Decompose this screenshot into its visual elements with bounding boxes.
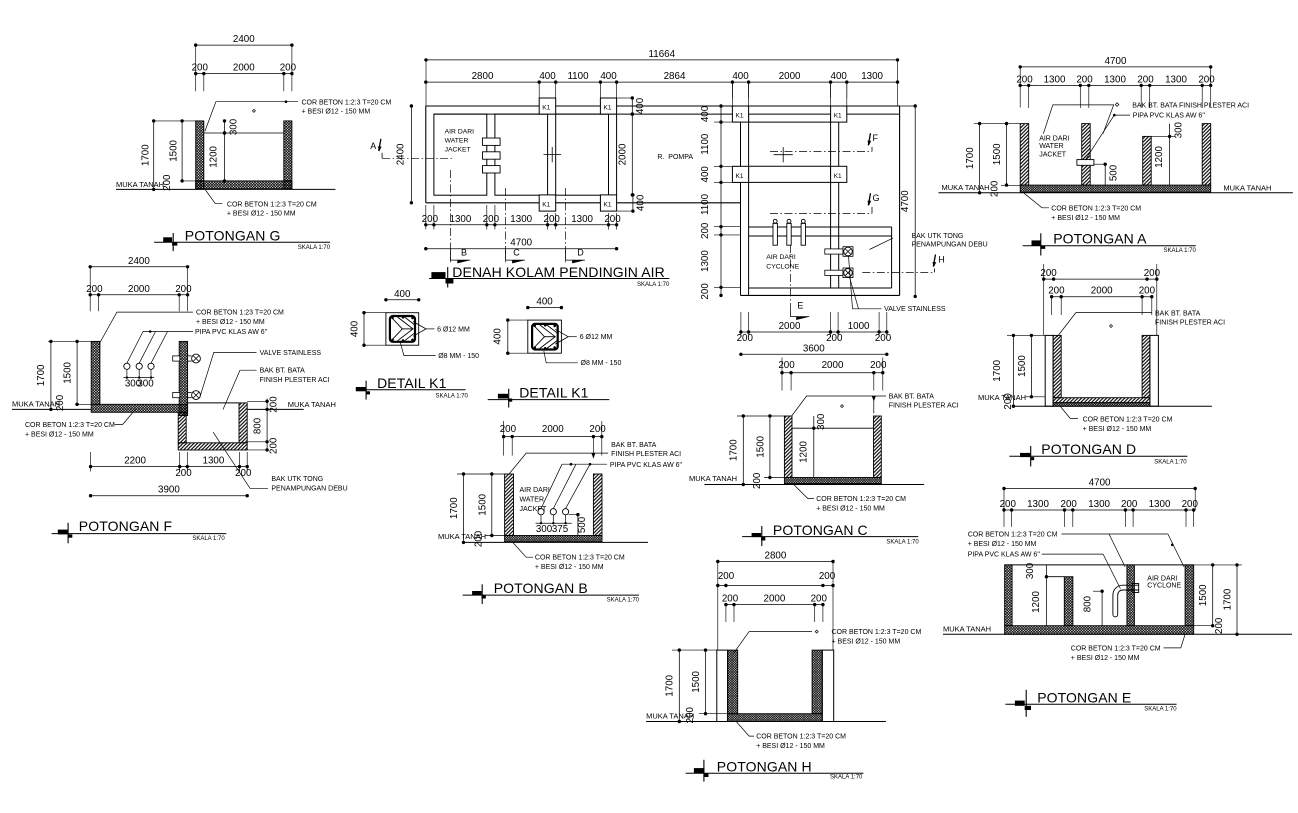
svg-text:200: 200: [280, 63, 297, 74]
svg-text:POTONGAN D: POTONGAN D: [1041, 441, 1136, 457]
svg-text:K1: K1: [834, 113, 842, 120]
svg-text:200: 200: [1121, 499, 1138, 510]
svg-text:FINISH PLESTER ACI: FINISH PLESTER ACI: [1155, 320, 1225, 327]
dim 2800 H: [718, 561, 833, 563]
svg-text:200: 200: [1214, 617, 1225, 634]
vdim 300 E: [1045, 565, 1047, 577]
dim stubs C: [737, 415, 784, 417]
svg-text:1500: 1500: [63, 361, 74, 383]
vdim 4700 right block: [861, 105, 916, 107]
right block inner floor line: [749, 287, 892, 289]
vdim 1200 A: [1169, 136, 1171, 185]
pipes F: [124, 363, 130, 369]
dim 4700 E: [1004, 488, 1195, 490]
svg-text:POTONGAN G: POTONGAN G: [185, 228, 281, 244]
stirrup K1a: [390, 316, 415, 342]
svg-text:+ BESI Ø12 - 150 MM: + BESI Ø12 - 150 MM: [25, 432, 94, 439]
svg-text:200: 200: [500, 424, 517, 435]
svg-text:200: 200: [422, 214, 439, 225]
K1 extension lines above right block row1: [731, 82, 733, 106]
svg-text:COR BETON 1:2:3 T=20 CM: COR BETON 1:2:3 T=20 CM: [25, 422, 115, 429]
svg-text:1300: 1300: [861, 71, 883, 82]
leader COR BETON bottom E: [1164, 634, 1186, 648]
svg-text:200: 200: [875, 333, 892, 344]
svg-text:AIR DARI: AIR DARI: [445, 129, 475, 136]
svg-text:COR BETON 1:23 T=20 CM: COR BETON 1:23 T=20 CM: [196, 310, 284, 317]
detail view DETAIL K1 left: [350, 289, 480, 400]
vdim 300 G: [224, 121, 226, 133]
svg-text:SKALA 1:70: SKALA 1:70: [607, 597, 640, 603]
svg-text:2400: 2400: [396, 143, 407, 165]
svg-text:DENAH KOLAM PENDINGIN AIR: DENAH KOLAM PENDINGIN AIR: [452, 264, 665, 280]
svg-text:+ BESI Ø12 - 150 MM: + BESI Ø12 - 150 MM: [1051, 215, 1120, 222]
svg-text:1500: 1500: [756, 435, 767, 457]
svg-text:400: 400: [831, 71, 848, 82]
leader VALVE STAINLESS F: [201, 352, 257, 395]
svg-text:1300: 1300: [700, 250, 711, 272]
right wall B hatched: [593, 474, 602, 536]
dim stubs F left: [48, 340, 100, 342]
vdim 1500 E: [1212, 565, 1214, 626]
plan outer top wall line: [426, 105, 900, 107]
right wall G hatched: [284, 121, 292, 189]
svg-text:1200: 1200: [209, 145, 220, 167]
svg-text:WATER: WATER: [520, 497, 545, 504]
title DETAIL K1 left: [356, 387, 366, 391]
leader VALVE STAINLESS: [849, 256, 882, 309]
plan bottom dim row 200x1300: [426, 224, 617, 226]
bak left wall extension F hatched: [178, 412, 186, 443]
left outer wall E hatched: [1005, 565, 1013, 626]
column K1 bottom row 1: [539, 195, 556, 211]
svg-text:1500: 1500: [992, 143, 1003, 165]
vdim 400 plan right bottom: [632, 195, 634, 211]
svg-text:1300: 1300: [571, 214, 593, 225]
mid wall E hatched: [1127, 565, 1135, 626]
svg-text:400: 400: [600, 71, 617, 82]
svg-text:1300: 1300: [1104, 74, 1126, 85]
dim extensions F bottom: [90, 452, 92, 472]
svg-text:MUKA TANAH: MUKA TANAH: [942, 183, 990, 192]
column K1 top row 1: [539, 98, 556, 114]
right dims F bak: [247, 400, 267, 402]
rebar diagonals K1b: [534, 326, 544, 348]
svg-text:E: E: [797, 301, 803, 311]
svg-text:200: 200: [473, 530, 484, 547]
plan bottom dim extensions: [425, 205, 427, 230]
svg-text:200: 200: [722, 593, 739, 604]
dim row E 200 1300: [1004, 509, 1194, 511]
svg-text:2000: 2000: [822, 360, 844, 371]
dim stubs H: [672, 649, 717, 651]
svg-text:200: 200: [589, 424, 606, 435]
svg-text:DETAIL K1: DETAIL K1: [519, 384, 588, 400]
svg-text:400: 400: [700, 166, 711, 183]
svg-text:+ BESI Ø12 - 150 MM: + BESI Ø12 - 150 MM: [1071, 655, 1140, 662]
svg-text:1300: 1300: [1027, 499, 1049, 510]
svg-text:A: A: [370, 141, 376, 151]
right block right inner wall line bottom: [891, 227, 893, 288]
svg-text:F: F: [873, 133, 879, 143]
leader PIPA PVC B: [541, 464, 562, 508]
svg-text:PENAMPUNGAN DEBU: PENAMPUNGAN DEBU: [912, 242, 988, 249]
dim extensions A: [1028, 85, 1030, 108]
dim 300 375 B: [536, 522, 572, 524]
svg-text:200: 200: [1003, 393, 1014, 410]
svg-text:2000: 2000: [128, 284, 150, 295]
dim extensions B: [503, 437, 505, 456]
svg-text:MUKA TANAH: MUKA TANAH: [12, 400, 60, 409]
svg-text:300: 300: [137, 379, 154, 390]
leader D8 K1a: [400, 343, 435, 356]
svg-text:2400: 2400: [233, 34, 255, 45]
plan inner top wall line: [434, 113, 900, 115]
valve stainless upper: [825, 249, 843, 254]
vdim 500 A: [1104, 164, 1106, 185]
svg-text:800: 800: [1083, 595, 1094, 612]
svg-text:1500: 1500: [477, 493, 488, 515]
leader BAK BT BATA B: [509, 453, 608, 474]
section view POTONGAN E: [943, 478, 1292, 717]
svg-text:6 Ø12 MM: 6 Ø12 MM: [437, 326, 470, 333]
section view POTONGAN A: [939, 56, 1293, 256]
right block right outer wall line: [899, 106, 901, 295]
dim row F bottom 2200 1300: [91, 466, 248, 468]
svg-text:200: 200: [1139, 286, 1156, 297]
svg-text:1000: 1000: [848, 321, 870, 332]
right wall F hatched: [179, 341, 187, 415]
title POTONGAN A: [1032, 240, 1041, 245]
svg-text:1700: 1700: [729, 439, 740, 461]
svg-text:B: B: [461, 248, 467, 258]
svg-text:400: 400: [536, 297, 553, 308]
section line H dash-dot: [862, 271, 934, 273]
leader 6 D12 K1b: [555, 329, 568, 344]
svg-text:400: 400: [635, 97, 646, 114]
section view POTONGAN H: [646, 551, 921, 782]
plan view DENAH KOLAM PENDINGIN AIR: [370, 49, 899, 288]
svg-text:2800: 2800: [472, 71, 494, 82]
svg-text:200: 200: [685, 706, 696, 723]
title POTONGAN H: [694, 768, 704, 773]
svg-text:200: 200: [235, 468, 252, 479]
svg-text:2000: 2000: [618, 143, 629, 165]
svg-text:4700: 4700: [1089, 478, 1111, 489]
wall 1 A hatched: [1020, 124, 1028, 186]
dim extensions E: [1003, 510, 1005, 527]
svg-text:200: 200: [700, 222, 711, 239]
right block left wall lines: [740, 114, 742, 295]
svg-text:CYCLONE: CYCLONE: [766, 263, 799, 270]
rebar diagonals K1a: [392, 318, 402, 340]
vdim 1700 C: [742, 416, 744, 485]
svg-text:POTONGAN H: POTONGAN H: [717, 758, 812, 774]
valve F upper: [173, 356, 180, 361]
svg-text:AIR DARI: AIR DARI: [1147, 575, 1177, 582]
svg-text:400: 400: [700, 105, 711, 122]
center mark compartment F: [774, 154, 793, 156]
section view POTONGAN C: [689, 358, 959, 547]
svg-text:+ BESI Ø12 - 150 MM: + BESI Ø12 - 150 MM: [832, 638, 901, 645]
vdim 2400 plan left: [410, 106, 412, 203]
ledge line E 300: [1046, 576, 1064, 578]
right inner wall D hatched: [1142, 335, 1150, 397]
svg-text:400: 400: [539, 71, 556, 82]
floor slab D upper hatched: [1053, 398, 1150, 403]
vdim 1200 G: [224, 133, 226, 181]
dim 2400 F: [90, 266, 187, 268]
vdim 1500 B: [491, 474, 493, 536]
svg-text:SKALA 1:70: SKALA 1:70: [1144, 707, 1177, 713]
svg-text:POTONGAN A: POTONGAN A: [1053, 231, 1147, 247]
svg-text:200: 200: [268, 437, 279, 454]
column outline K1b: [528, 320, 562, 353]
svg-text:K1: K1: [542, 202, 550, 209]
svg-text:POTONGAN E: POTONGAN E: [1037, 689, 1131, 705]
svg-text:1300: 1300: [1149, 499, 1171, 510]
svg-text:200: 200: [989, 180, 1000, 197]
vdim 1700 B: [463, 474, 465, 542]
section view POTONGAN F: [12, 256, 348, 544]
pipe sleeve A: [1077, 160, 1094, 166]
svg-text:4700: 4700: [1105, 56, 1127, 67]
svg-text:Ø8 MM - 150: Ø8 MM - 150: [581, 360, 622, 367]
ground line C: [705, 484, 925, 486]
diamond mark C: [841, 405, 844, 408]
svg-text:+ BESI Ø12 - 150 MM: + BESI Ø12 - 150 MM: [227, 211, 296, 218]
pool compartment 1 inner rect: [434, 114, 487, 195]
svg-text:500: 500: [577, 516, 588, 533]
water line C: [792, 427, 874, 429]
svg-text:375: 375: [552, 524, 569, 535]
title DETAIL K1 right: [498, 394, 508, 399]
ground line B: [464, 541, 649, 543]
svg-text:CYCLONE: CYCLONE: [1147, 583, 1181, 590]
floor slab H hatched: [728, 714, 823, 722]
title DENAH KOLAM PENDINGIN AIR: [431, 272, 445, 278]
svg-text:500: 500: [1109, 164, 1120, 181]
dim row plan top 2800-1300: [426, 81, 898, 83]
wall 4 A hatched: [1202, 124, 1211, 186]
svg-text:FINISH PLESTER ACI: FINISH PLESTER ACI: [260, 377, 330, 384]
dim stubs D: [1007, 334, 1045, 336]
svg-text:1300: 1300: [510, 214, 532, 225]
bak right wall F hatched: [239, 403, 247, 443]
ground line E: [943, 633, 1292, 635]
svg-text:2800: 2800: [765, 551, 787, 562]
leader COR BETON bottom H: [736, 722, 754, 737]
column K1 bottom row 2: [600, 195, 616, 211]
svg-text:400: 400: [732, 71, 749, 82]
left inner wall D hatched: [1053, 335, 1061, 397]
svg-text:1100: 1100: [700, 193, 711, 215]
title POTONGAN E: [1015, 701, 1025, 706]
dim row 200 2000 200 G: [196, 73, 292, 75]
svg-text:+ BESI Ø12 - 150 MM: + BESI Ø12 - 150 MM: [968, 541, 1037, 548]
svg-text:COR BETON 1:2:3 T=20 CM: COR BETON 1:2:3 T=20 CM: [968, 532, 1058, 539]
rebar dots K1a: [391, 317, 394, 320]
svg-text:1700: 1700: [965, 147, 976, 169]
svg-text:4700: 4700: [900, 190, 911, 212]
leader COR BETON B: [513, 542, 533, 557]
bak floor slab F hatched: [178, 443, 247, 450]
floor slab C hatched: [784, 478, 881, 484]
svg-text:2000: 2000: [779, 321, 801, 332]
dim extension lines G top: [195, 45, 197, 91]
pipes B: [538, 509, 544, 515]
right outer wall E hatched: [1185, 565, 1194, 626]
svg-text:200: 200: [778, 360, 795, 371]
dim row D outer 200 200: [1044, 278, 1157, 280]
title POTONGAN D: [1020, 453, 1030, 457]
vdim 400 left K1b: [508, 319, 528, 321]
svg-text:6 Ø12 MM: 6 Ø12 MM: [580, 334, 613, 341]
svg-text:SKALA 1:70: SKALA 1:70: [192, 536, 225, 542]
section marker B plan: [450, 170, 452, 262]
svg-text:1100: 1100: [567, 71, 589, 82]
svg-text:1700: 1700: [449, 497, 460, 519]
svg-text:SKALA 1:70: SKALA 1:70: [1154, 459, 1187, 465]
dim 400 top K1a: [386, 299, 419, 301]
svg-text:AIR DARI: AIR DARI: [1039, 135, 1069, 142]
svg-text:AIR DARI: AIR DARI: [766, 254, 796, 261]
leader BAK BT BATA D: [1057, 313, 1152, 338]
dim row B 200 2000 200: [504, 436, 602, 438]
svg-text:COR BETON 1:2:3 T=20 CM: COR BETON 1:2:3 T=20 CM: [535, 555, 625, 562]
ground line F right: [247, 408, 304, 410]
svg-text:200: 200: [1000, 499, 1017, 510]
svg-text:PIPA PVC KLAS AW 6": PIPA PVC KLAS AW 6": [195, 329, 268, 336]
svg-text:R. POMPA: R. POMPA: [657, 154, 693, 161]
stirrup K1b: [532, 324, 558, 350]
svg-text:+ BESI Ø12 - 150 MM: + BESI Ø12 - 150 MM: [535, 564, 604, 571]
svg-text:+ BESI Ø12 - 150 MM: + BESI Ø12 - 150 MM: [756, 743, 825, 750]
right block bottom dim row 2000 1000: [741, 331, 887, 333]
dim stubs B: [457, 473, 505, 475]
section marker A plan: [379, 139, 381, 151]
svg-text:11664: 11664: [649, 49, 676, 60]
svg-text:H: H: [938, 254, 945, 264]
dim row A 200 1300: [1020, 84, 1210, 86]
column K1 right block row2 col3: [732, 166, 748, 182]
leader BAK BT BATA A: [1043, 105, 1114, 134]
svg-text:400: 400: [394, 289, 411, 300]
dim 11664 plan top: [426, 59, 898, 61]
svg-text:Ø8 MM - 150: Ø8 MM - 150: [438, 353, 479, 360]
plan bottom wall line left block and corridor: [426, 202, 741, 204]
title POTONGAN C: [752, 533, 762, 537]
svg-text:JACKET: JACKET: [1039, 152, 1067, 159]
svg-text:1300: 1300: [1044, 74, 1066, 85]
svg-text:200: 200: [1016, 74, 1033, 85]
svg-text:BAK BT. BATA: BAK BT. BATA: [1155, 310, 1201, 317]
dim 300 300 F: [123, 377, 154, 379]
valve F lower: [173, 393, 180, 398]
svg-text:COR BETON 1:2:3 T=20 CM: COR BETON 1:2:3 T=20 CM: [1083, 417, 1173, 424]
wall 3 short A hatched: [1143, 136, 1152, 185]
section marker D plan: [564, 188, 566, 262]
vdim 400 left K1a: [364, 312, 386, 314]
title POTONGAN G: [163, 237, 172, 242]
svg-text:K1: K1: [834, 173, 842, 180]
leader COR BETON C: [794, 485, 814, 499]
svg-text:PIPA PVC KLAS AW 6": PIPA PVC KLAS AW 6": [968, 552, 1041, 559]
svg-text:MUKA TANAH: MUKA TANAH: [689, 474, 737, 483]
svg-text:JACKET: JACKET: [445, 147, 471, 154]
pvc pipe J shape E: [1113, 590, 1139, 617]
ground line A: [939, 192, 1293, 194]
svg-text:+ BESI Ø12 - 150 MM: + BESI Ø12 - 150 MM: [1083, 426, 1152, 433]
top edge line E: [1005, 564, 1194, 566]
leader COR BETON top G: [205, 102, 298, 132]
pool compartment 2 inner rect: [495, 114, 548, 195]
title POTONGAN B: [472, 591, 481, 595]
right pool block plan: [700, 82, 988, 356]
left wall F hatched: [91, 341, 100, 404]
svg-text:SKALA 1:70: SKALA 1:70: [298, 245, 331, 251]
svg-text:G: G: [873, 193, 880, 203]
vdim 1500 D: [1030, 335, 1032, 396]
pipes through cyclone wall: [773, 219, 777, 223]
dim 4700 A: [1020, 66, 1210, 68]
right dims E: [1194, 564, 1242, 566]
vdim 1700 H: [678, 650, 680, 721]
vdim 1700 E: [1236, 565, 1238, 634]
svg-text:200: 200: [1198, 74, 1215, 85]
svg-text:200: 200: [826, 333, 843, 344]
vdim 1700 G: [153, 121, 155, 189]
svg-text:200: 200: [811, 593, 828, 604]
dim row C 200 2000 200: [782, 372, 883, 374]
leader COR BETON top H: [734, 632, 812, 654]
svg-text:200: 200: [604, 214, 621, 225]
svg-text:1700: 1700: [665, 674, 676, 696]
ground line D: [1013, 405, 1212, 407]
dim stubs A left: [974, 123, 1020, 125]
section view POTONGAN G: [116, 34, 391, 251]
vdim 1500 C: [769, 416, 771, 478]
svg-text:200: 200: [1182, 499, 1199, 510]
svg-text:2200: 2200: [124, 455, 146, 466]
right block left dim line: [720, 106, 722, 295]
floor slab B hatched: [505, 536, 602, 542]
dim extensions C: [781, 373, 783, 391]
svg-text:200: 200: [870, 360, 887, 371]
svg-text:1500: 1500: [1017, 355, 1028, 377]
column K1 top row 2: [600, 98, 616, 114]
svg-text:BAK UTK TONG: BAK UTK TONG: [912, 233, 964, 240]
section line G dash-dot: [770, 213, 872, 215]
svg-text:+ BESI Ø12 - 150 MM: + BESI Ø12 - 150 MM: [196, 319, 265, 326]
right wall C hatched: [874, 416, 882, 478]
svg-text:200: 200: [718, 571, 735, 582]
svg-text:MUKA TANAH: MUKA TANAH: [116, 180, 164, 189]
svg-text:1300: 1300: [1165, 74, 1187, 85]
dim extensions H: [725, 605, 727, 622]
pipe flange E: [1132, 584, 1138, 593]
svg-text:BAK UTK TONG: BAK UTK TONG: [271, 476, 323, 483]
wall W4 lines below K1: [608, 114, 610, 195]
column K1 right block row1 col3: [732, 106, 748, 122]
ground line F left: [12, 408, 91, 410]
dim row D inner 200 2000 200: [1052, 296, 1152, 298]
svg-text:FINISH PLESTER ACI: FINISH PLESTER ACI: [889, 403, 959, 410]
vdim 1700 A: [979, 124, 981, 193]
svg-text:2000: 2000: [764, 593, 786, 604]
vdim 1500 H: [705, 650, 707, 714]
svg-text:SKALA 1:70: SKALA 1:70: [637, 282, 670, 288]
svg-text:POTONGAN F: POTONGAN F: [79, 518, 172, 534]
